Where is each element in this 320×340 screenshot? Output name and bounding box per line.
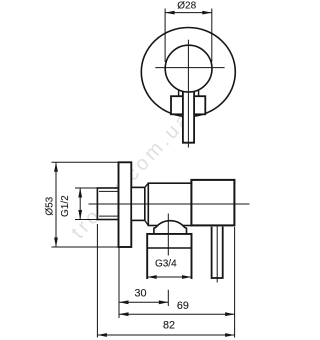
Ø28 dimension line with arrows <box>165 12 212 14</box>
chamfer step lines <box>145 183 149 187</box>
top view nut <box>171 96 205 114</box>
top view stem <box>183 92 194 143</box>
30 dimension line with arrows <box>119 301 168 303</box>
svg-text:69: 69 <box>177 300 189 312</box>
G3/4 dimension line with arrows <box>147 276 191 278</box>
handle collar stub right <box>198 91 200 97</box>
side view wall flange <box>119 162 132 247</box>
G1/2 extension lines <box>75 187 97 189</box>
top view vertical centerline <box>187 40 189 148</box>
82 dimension line with arrows <box>97 334 234 336</box>
top view outer circle (rosette) <box>141 28 235 117</box>
extension line block right face <box>234 227 236 338</box>
top view horizontal centerline <box>155 67 224 69</box>
stem centerline <box>216 226 218 283</box>
handle collar stub left <box>178 91 180 97</box>
svg-text:82: 82 <box>163 320 175 332</box>
svg-text:Ø53: Ø53 <box>45 196 56 215</box>
side view body cylinder <box>148 183 191 225</box>
outlet dome <box>154 221 187 235</box>
G1/2 dimension line with arrows <box>79 188 81 220</box>
top view inner circle Ø28 <box>165 45 212 92</box>
outlet axis centerline <box>167 214 169 256</box>
G3/4 nut <box>147 234 191 279</box>
stem below block <box>212 227 223 278</box>
nut band line <box>147 247 191 249</box>
svg-text:G1/2: G1/2 <box>60 195 71 217</box>
svg-text:30: 30 <box>134 287 146 299</box>
69 dimension line with arrows <box>119 313 235 315</box>
side view threaded pipe G1/2 <box>97 188 118 220</box>
extension line pipe end <box>96 224 98 338</box>
30 dim tick (outlet axis) <box>167 290 169 306</box>
handle block <box>191 180 234 226</box>
watermark diagonal text <box>67 107 196 243</box>
extension line flange face <box>118 247 120 318</box>
thread lines <box>99 190 119 192</box>
svg-text:Ø28: Ø28 <box>177 1 196 12</box>
svg-text:G3/4: G3/4 <box>155 258 177 269</box>
Ø53 extension lines <box>52 161 131 163</box>
side view neck <box>131 187 145 220</box>
main axis centerline <box>89 203 250 205</box>
Ø53 dimension line with arrows <box>55 162 57 247</box>
Ø28 dimension extension lines <box>164 9 166 63</box>
